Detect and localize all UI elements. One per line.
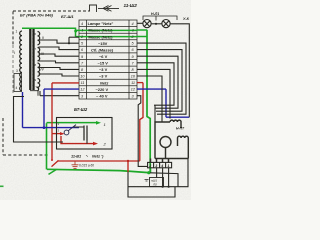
tap wire row pin9 [39, 54, 80, 56]
svg-text:6: 6 [81, 48, 84, 52]
motor PT assembly outline [151, 120, 189, 163]
edge mark green [0, 185, 4, 187]
wire pin7 [137, 63, 174, 105]
svg-text:БТ (РВА 70ч 046): БТ (РВА 70ч 046) [20, 13, 54, 18]
svg-text:8: 8 [132, 68, 135, 72]
lamp bracket [143, 16, 177, 21]
svg-text:~15 V: ~15 V [98, 61, 109, 66]
svg-text:~220 V: ~220 V [96, 87, 109, 92]
capacitor in box [84, 126, 87, 141]
wire pin10 [137, 76, 162, 122]
blue net 220V [23, 89, 190, 128]
red switch jumper in box [61, 136, 94, 144]
svg-text:5: 5 [132, 42, 135, 46]
svg-text:8: 8 [35, 63, 37, 67]
transformer T primary winding [20, 31, 22, 91]
lamp chain to right edge [170, 24, 190, 117]
green left vertical to switch box row [46, 123, 48, 169]
motor connector 2 3 4 1 [148, 162, 172, 167]
junction dots bottom [162, 186, 164, 188]
svg-text:8: 8 [81, 68, 84, 72]
svg-text:3: 3 [58, 129, 60, 133]
green vertical right [147, 30, 150, 172]
svg-text:Л0: Л0 [152, 183, 157, 187]
svg-text:2: 2 [103, 142, 107, 147]
tap wire row pin10 [39, 74, 80, 76]
red wire row pin11 [52, 82, 79, 84]
transformer secondary windings [38, 32, 40, 92]
red mains wire bottom [58, 161, 140, 172]
red junction dot branch [127, 160, 129, 162]
svg-text:11: 11 [81, 81, 85, 85]
svg-text:Netz: Netz [100, 80, 108, 85]
tap wire row pin8 [39, 68, 80, 70]
svg-text:IV: IV [41, 68, 45, 72]
svg-text:7: 7 [132, 61, 135, 65]
green bottom bus [47, 169, 149, 172]
connector table Sh1 [79, 20, 137, 99]
svg-text:4: 4 [16, 86, 18, 90]
green stub right rows 1-2 [137, 30, 147, 37]
tap junction vertical [68, 37, 70, 43]
svg-text:10: 10 [131, 75, 136, 79]
svg-text:9: 9 [35, 78, 37, 82]
blue vertical left [43, 89, 45, 128]
svg-text:7: 7 [81, 61, 84, 65]
svg-text:БТ-Ш2: БТ-Ш2 [74, 107, 88, 112]
capacitor to chassis [72, 161, 79, 168]
red arrowhead to switch [60, 132, 65, 135]
core shield to pin3 wire [30, 91, 38, 96]
green jog at table edge [75, 30, 77, 36]
green junction dot rows [74, 30, 77, 33]
green junction dot bottom [147, 171, 150, 174]
svg-text:~6 V: ~6 V [99, 54, 108, 59]
black cable bundle right side [137, 43, 186, 166]
green wire through row pin1 [79, 29, 137, 31]
wire pin3 [137, 96, 148, 167]
svg-text:0,015 а 60: 0,015 а 60 [79, 164, 94, 168]
svg-text:~3 V: ~3 V [99, 74, 108, 79]
svg-text:Сб. (Masse): Сб. (Masse) [91, 47, 114, 52]
svg-text:4: 4 [132, 22, 134, 26]
tap wire row pin7 [39, 61, 80, 63]
svg-text:~3 V: ~3 V [99, 67, 108, 72]
svg-text:12: 12 [80, 88, 85, 92]
svg-text:6: 6 [132, 48, 135, 52]
svg-text:4: 4 [81, 22, 83, 26]
tap wire to row pin2 [69, 36, 79, 38]
tap wire row pin6 [39, 47, 80, 50]
svg-text:10: 10 [80, 75, 85, 79]
red feed to switch contact [52, 133, 60, 135]
tap wire row pin5 [39, 40, 80, 43]
lamp L2 [162, 20, 170, 28]
red switch lever 11-B1 [52, 134, 59, 167]
dashed enclosure BT unit [13, 11, 90, 95]
transformer core bars [30, 28, 33, 91]
svg-text:9: 9 [81, 55, 84, 59]
red vertical right [140, 83, 143, 161]
table pin numbers left column [80, 22, 85, 99]
green net: transformer top lead [22, 28, 151, 174]
svg-text:Masse (Netz): Masse (Netz) [88, 34, 113, 39]
svg-text:3: 3 [81, 94, 84, 98]
red stub right row pin11 [137, 82, 143, 84]
red switch contact dot [51, 159, 53, 161]
junction dot lamps [155, 23, 157, 25]
svg-text:~ 40 V: ~ 40 V [96, 94, 108, 99]
black wire from selector box down [14, 97, 64, 143]
green wire through row pin2 [76, 36, 138, 38]
junction dot ladder [68, 42, 70, 44]
BT-Sh2 box [57, 118, 113, 150]
bundle merge vertical [154, 105, 156, 122]
tap wire row pin3 [40, 91, 79, 96]
svg-text:~15V: ~15V [98, 41, 108, 46]
paper grain overlay [0, 0, 191, 200]
svg-text:7: 7 [35, 47, 37, 51]
svg-text:5: 5 [81, 42, 84, 46]
wire pin6 [137, 50, 182, 112]
switch contact in box [64, 125, 76, 135]
red net Netz [52, 83, 144, 172]
black ladder wires from secondary taps [39, 37, 80, 95]
tap selector box with pin 4 [14, 74, 22, 92]
blue junction dot [43, 126, 46, 129]
wire between lamps [151, 23, 162, 25]
green stub to motor connector cell 2 [150, 167, 152, 173]
wire pin9 [137, 56, 178, 108]
red arrowhead 2 [93, 142, 98, 146]
chassis mark at plug [145, 180, 149, 182]
svg-text:3: 3 [132, 94, 135, 98]
cable arrow symbol [98, 6, 119, 12]
svg-text:Masse (Netz): Masse (Netz) [88, 28, 113, 33]
svg-text:11-Ш2: 11-Ш2 [124, 3, 138, 8]
svg-text:6: 6 [35, 32, 37, 36]
svg-text:1: 1 [81, 28, 83, 32]
lamp wire from pin4 [137, 22, 143, 24]
svg-text:3: 3 [16, 69, 18, 73]
dashed corner top-right of BT box [90, 5, 97, 12]
mini plug label box 11-Sh1 [150, 178, 164, 187]
svg-text:Lampe "Netz": Lampe "Netz" [88, 21, 114, 26]
red vertical left [51, 83, 53, 134]
svg-text:БТ-Ш1: БТ-Ш1 [61, 14, 74, 19]
wire pin5 [137, 43, 186, 114]
green switch pole lever [49, 169, 57, 174]
svg-text:Н-ПТ: Н-ПТ [176, 127, 185, 131]
wire pin8 [137, 69, 170, 118]
svg-text:II: II [42, 36, 44, 40]
svg-text:1: 1 [16, 30, 18, 34]
green arrow line into BT-Sh2 box [47, 122, 97, 124]
wires below motor connector [128, 159, 188, 198]
svg-text:1: 1 [132, 28, 134, 32]
blue wire row pin12 [44, 88, 79, 90]
green arrowhead 1 [96, 121, 101, 125]
bottom mains wire [128, 172, 175, 197]
lamp L1 [143, 20, 151, 28]
blue vertical right [165, 89, 167, 117]
svg-text:11-В1: 11-В1 [71, 154, 81, 158]
svg-text:1: 1 [104, 122, 106, 127]
blue primary bottom lead [23, 92, 80, 128]
svg-text:11: 11 [131, 81, 135, 85]
blue stub right row pin12 [137, 88, 166, 90]
svg-text:9: 9 [132, 55, 135, 59]
svg-text:Netz ’): Netz ’) [92, 154, 104, 158]
svg-text:У-К: У-К [183, 17, 190, 21]
blue bottom jog to lamp line [166, 116, 189, 118]
table pin numbers right column [131, 22, 136, 99]
outer chassis dashed border [3, 118, 48, 155]
svg-text:Н-Л1: Н-Л1 [151, 12, 159, 16]
svg-text:I: I [14, 51, 16, 55]
svg-text:12: 12 [131, 88, 136, 92]
svg-text:∿: ∿ [86, 154, 89, 158]
table labels [88, 21, 114, 98]
thin link from green bus [150, 173, 178, 187]
